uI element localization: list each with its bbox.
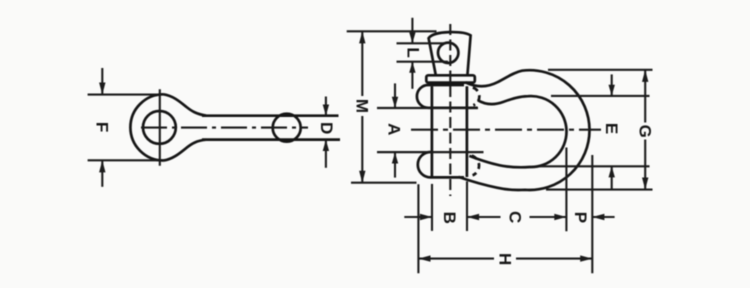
svg-text:C: C: [506, 211, 525, 223]
wire B left extension vertical: [431, 184, 433, 231]
node head vertical crosshair: [159, 89, 161, 166]
arrowhead M bottom: [359, 171, 365, 183]
wire F top arrow shaft: [101, 68, 103, 95]
arrowhead E top: [609, 85, 615, 96]
wire jaw bottom line: [377, 151, 484, 153]
wire head-to-shank top fillet: [164, 94, 207, 115]
node shackle horizontal centerline: [411, 129, 601, 131]
arrowhead B left pointing right: [420, 214, 432, 220]
wire P right arrow shaft: [592, 216, 614, 218]
arrowhead E bottom: [609, 166, 615, 177]
arrowhead H right: [580, 255, 592, 261]
wire H dim line left: [418, 258, 494, 260]
wire C right extension vertical: [565, 148, 567, 232]
pin head outer outline: [130, 94, 163, 160]
wire F bottom extension line: [88, 159, 159, 161]
wire L top arrow shaft: [411, 18, 413, 44]
wire M bottom extension line: [351, 182, 417, 184]
pin right side: [466, 86, 469, 177]
arrowhead D top: [323, 105, 329, 116]
wire B left arrow shaft: [404, 216, 432, 218]
wire B-C arrow shaft at 467: [467, 216, 501, 218]
wire D top arrow shaft: [325, 97, 327, 116]
bottom ear hidden right arc: [472, 156, 479, 176]
wire F bottom arrow shaft: [101, 160, 103, 187]
bow inner outline: [469, 96, 566, 167]
arrowhead P pointing left: [592, 214, 604, 220]
wire jaw top line: [377, 107, 478, 109]
wire G top extension line: [548, 69, 653, 71]
svg-text:L: L: [403, 47, 422, 57]
wire E bottom extension line: [540, 165, 650, 167]
wire B right extension vertical: [466, 181, 468, 231]
wire G dim line lower: [644, 140, 646, 190]
svg-text:B: B: [440, 212, 459, 224]
wire M-L top extension line: [347, 30, 437, 32]
svg-text:M: M: [352, 99, 371, 113]
wire L eye bottom tangent extension: [397, 61, 449, 63]
svg-text:G: G: [636, 125, 655, 138]
wire head-to-shank bottom fillet: [164, 140, 207, 161]
wire shank top line: [202, 114, 339, 117]
svg-text:E: E: [602, 123, 621, 134]
top ear capsule: [417, 85, 478, 108]
bow outer outline: [459, 70, 590, 190]
svg-text:P: P: [571, 212, 590, 223]
pin left side: [431, 86, 434, 177]
bottom ear capsule: [418, 152, 464, 177]
arrowhead F top: [99, 83, 105, 95]
wire M dim line lower: [361, 116, 363, 183]
arrowhead G bottom: [642, 178, 648, 190]
svg-text:A: A: [385, 123, 404, 135]
wire D bottom arrow shaft: [325, 140, 327, 168]
node pin vertical centerline: [449, 24, 451, 196]
pin head trapezoid U-bolt head: [429, 32, 471, 75]
arrowhead A top: [392, 97, 398, 108]
shank hole circle: [273, 114, 301, 142]
wire H left extension vertical: [417, 184, 419, 273]
top ear hidden right arc: [473, 88, 480, 106]
wire C right arrow shaft: [530, 216, 567, 218]
wire E bottom arrow shaft: [611, 166, 613, 189]
svg-text:F: F: [92, 122, 111, 132]
wire G bottom extension line: [546, 189, 653, 191]
svg-text:H: H: [495, 253, 514, 265]
arrowhead L bottom: [409, 62, 415, 73]
wire H dim line right: [516, 258, 592, 260]
wire E top extension line: [551, 95, 650, 97]
pin head hole: [143, 111, 176, 144]
wire A bottom arrow shaft: [394, 152, 396, 177]
arrowhead D bottom: [323, 140, 329, 151]
pin head eye circle: [438, 43, 458, 63]
wire L eye top tangent extension: [397, 42, 447, 44]
wire L bottom arrow shaft: [411, 62, 413, 89]
collar washer: [426, 75, 475, 82]
wire left centerline dash-dot: [141, 127, 308, 129]
arrowhead M top: [359, 31, 365, 43]
arrowhead G top: [642, 70, 648, 82]
wire F top extension line: [88, 94, 159, 96]
arrowhead BC pointing left: [467, 214, 479, 220]
wire M dim line upper: [361, 31, 363, 96]
arrowhead A bottom: [392, 152, 398, 163]
wire shank bottom line: [202, 138, 340, 141]
svg-text:D: D: [317, 122, 336, 134]
arrowhead F bottom: [99, 160, 105, 172]
arrowhead C pointing right: [554, 214, 566, 220]
wire H-P right extension vertical: [591, 155, 593, 273]
arrowhead H left: [418, 255, 430, 261]
wire A top arrow shaft: [394, 83, 396, 108]
wire E top arrow shaft: [611, 74, 613, 96]
wire G dim line upper: [644, 70, 646, 123]
arrowhead L top: [409, 32, 415, 43]
